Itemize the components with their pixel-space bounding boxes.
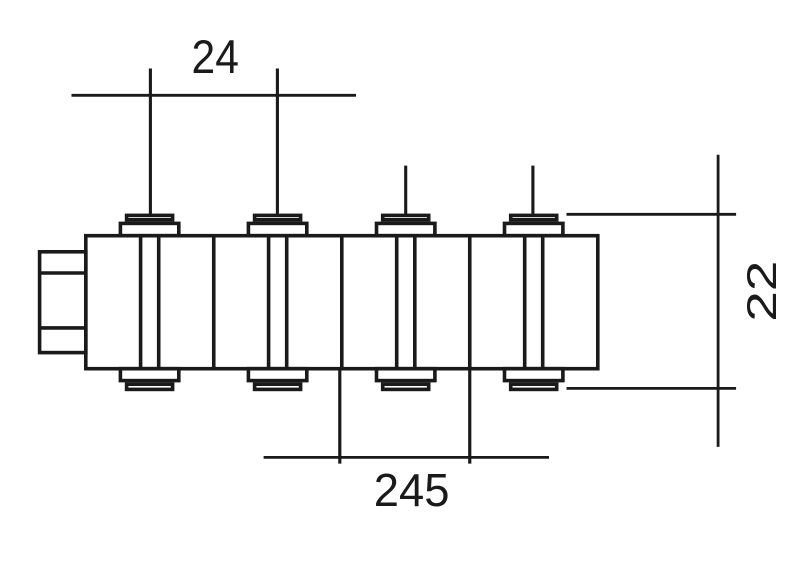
port 1 top cap: [127, 215, 173, 219]
port 2 stem / extension line: [276, 69, 279, 216]
port 1 channel right wall: [157, 236, 161, 369]
dimension line 22: [717, 155, 720, 447]
port 1 stem / extension line: [149, 69, 152, 216]
port 1 top flange: [120, 223, 178, 235]
port 2 channel left wall: [267, 236, 271, 369]
port 3 bottom cap: [383, 384, 429, 389]
port 2 top cap: [255, 215, 301, 219]
body segment line 2: [340, 236, 344, 369]
fitting facet line upper: [40, 271, 86, 275]
port 1 bottom cap: [127, 384, 173, 389]
port 4 bottom flange: [505, 369, 563, 381]
body segment line 1: [212, 236, 216, 369]
port 1 bottom flange: [120, 369, 178, 381]
port 3 top cap: [383, 215, 429, 219]
port 3 top flange: [377, 223, 435, 235]
port 4 stem: [531, 166, 534, 216]
port 1 channel left wall: [139, 236, 143, 369]
port 2 channel right wall: [285, 236, 289, 369]
port 2 top flange: [248, 223, 306, 235]
dimension line 24: [72, 94, 357, 97]
extension line 22 bottom: [567, 387, 737, 390]
body segment line 3: [468, 236, 472, 369]
port 3 stem: [404, 166, 407, 216]
fitting facet line lower: [40, 326, 86, 330]
svg-text:24: 24: [192, 30, 239, 84]
port 3 channel left wall: [395, 236, 399, 369]
port 2 bottom cap: [255, 384, 301, 389]
port 2 bottom flange: [248, 369, 306, 381]
extension line 245 left: [338, 369, 341, 464]
port 4 channel left wall: [523, 236, 527, 369]
port 4 top flange: [505, 223, 563, 235]
svg-text:22: 22: [739, 261, 785, 322]
port 4 channel right wall: [541, 236, 545, 369]
extension line 22 top: [567, 213, 737, 216]
port 4 bottom cap: [511, 384, 557, 389]
manifold body outline: [86, 236, 598, 369]
port 3 channel right wall: [413, 236, 417, 369]
dimension line 245: [264, 456, 549, 459]
left end fitting: [40, 252, 86, 353]
port 4 top cap: [511, 215, 557, 219]
port 3 bottom flange: [377, 369, 435, 381]
svg-text:245: 245: [374, 463, 450, 516]
extension line 245 right: [468, 369, 471, 464]
